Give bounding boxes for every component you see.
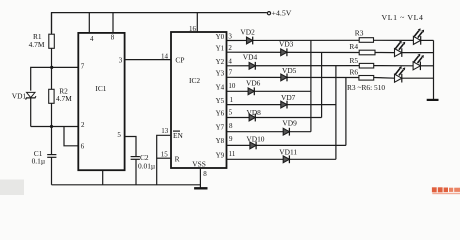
svg-text:Y5: Y5 bbox=[216, 97, 225, 105]
wire IC1 pin6 elbow bbox=[64, 127, 78, 146]
svg-text:8: 8 bbox=[229, 122, 233, 130]
svg-text:VD8: VD8 bbox=[247, 108, 262, 117]
svg-text:15: 15 bbox=[161, 150, 169, 158]
IC1 pin5 wire bbox=[125, 137, 136, 157]
svg-text:6: 6 bbox=[81, 143, 85, 151]
wire Y7 row to bus A bbox=[227, 131, 311, 133]
wire R6 to VL4 bbox=[374, 77, 395, 80]
wire Y2 row to R5 bbox=[227, 65, 360, 67]
svg-text:Y7: Y7 bbox=[216, 124, 225, 132]
svg-text:8: 8 bbox=[203, 170, 207, 178]
wire R5 to VL3 bbox=[374, 65, 413, 67]
node dot R2/C1/pin2 bbox=[50, 125, 53, 128]
diode VD5 bbox=[281, 74, 287, 82]
svg-text:R6: R6 bbox=[350, 67, 359, 76]
LED VL3 bbox=[413, 54, 424, 70]
diode VD7 bbox=[281, 101, 287, 109]
diode VD11 bbox=[283, 155, 289, 163]
wire Y0 row to R3 bbox=[227, 39, 360, 41]
diode VD9 bbox=[283, 128, 289, 136]
svg-text:4.7M: 4.7M bbox=[29, 40, 45, 49]
+4.5V supply terminal bbox=[267, 12, 270, 15]
svg-text:5: 5 bbox=[117, 131, 121, 139]
svg-text:VD6: VD6 bbox=[246, 78, 261, 87]
zener diode VD1 bbox=[12, 91, 36, 126]
IC1 pin8 wire bbox=[112, 13, 114, 33]
diode VD10 bbox=[250, 142, 256, 150]
svg-text:7: 7 bbox=[229, 69, 233, 77]
svg-text:4.7M: 4.7M bbox=[56, 94, 72, 103]
wire Y4 row to bus A bbox=[227, 90, 311, 92]
wire Y9 row to bus C bbox=[227, 158, 336, 160]
svg-text:Y2: Y2 bbox=[216, 58, 225, 66]
wire bus A (Y0/Y4/Y7 to R3) bbox=[310, 40, 312, 131]
svg-text:10: 10 bbox=[228, 82, 236, 90]
wire R3 to VL1 bbox=[374, 39, 414, 41]
svg-text:9: 9 bbox=[229, 135, 233, 143]
wire IC1 pin3 to IC2 CP bbox=[125, 59, 171, 61]
diode VD3 bbox=[281, 48, 287, 56]
wire bus B (Y1/Y6 to R4) bbox=[321, 52, 323, 117]
svg-text:VD4: VD4 bbox=[243, 53, 258, 62]
wire R4 to VL2 bbox=[375, 52, 395, 54]
IC2 pin16 wire bbox=[196, 13, 198, 32]
IC1 pin4 wire bbox=[88, 13, 90, 33]
IC1 box bbox=[78, 33, 124, 170]
node dot R1/R2/pin7 bbox=[50, 66, 53, 69]
svg-text:VD7: VD7 bbox=[281, 93, 296, 102]
wire bus D (Y3/Y8 to R6) bbox=[345, 77, 347, 145]
resistor R5 bbox=[359, 63, 373, 68]
svg-text:Y6: Y6 bbox=[216, 110, 225, 118]
svg-text:+4.5V: +4.5V bbox=[272, 9, 292, 18]
svg-text:Y4: Y4 bbox=[216, 83, 225, 91]
svg-text:16: 16 bbox=[189, 25, 197, 33]
watermark (bottom right) bbox=[432, 187, 460, 194]
wire VL4 to right bus bbox=[402, 77, 434, 79]
svg-text:VL1 ~ VL4: VL1 ~ VL4 bbox=[382, 13, 424, 22]
svg-text:0.01µ: 0.01µ bbox=[138, 161, 156, 170]
diode VD6 bbox=[248, 87, 254, 95]
svg-text:2: 2 bbox=[228, 44, 232, 52]
svg-text:3: 3 bbox=[119, 57, 123, 65]
wire Y6 row to bus B bbox=[227, 117, 322, 119]
diode VD2 bbox=[247, 37, 253, 45]
svg-text:R: R bbox=[175, 155, 180, 164]
wire IC1 pin2 node bbox=[31, 126, 79, 128]
wire VL1 to right bus bbox=[421, 39, 434, 41]
svg-text:Y3: Y3 bbox=[216, 70, 225, 78]
svg-text:VD2: VD2 bbox=[240, 28, 255, 37]
svg-text:4: 4 bbox=[90, 35, 94, 43]
svg-text:1: 1 bbox=[230, 96, 234, 104]
svg-text:5: 5 bbox=[229, 109, 233, 117]
svg-text:VD11: VD11 bbox=[279, 147, 297, 156]
svg-text:11: 11 bbox=[229, 150, 236, 158]
svg-text:EN: EN bbox=[173, 131, 184, 140]
svg-text:R3 ~R6: 510: R3 ~R6: 510 bbox=[347, 83, 385, 92]
svg-text:VD9: VD9 bbox=[282, 119, 297, 128]
svg-text:13: 13 bbox=[161, 127, 169, 135]
wire Y3 row to R6 bbox=[227, 76, 359, 78]
wire VL2 to right bus bbox=[402, 52, 434, 54]
svg-text:VSS: VSS bbox=[192, 159, 206, 168]
wire IC1 pin7 node bbox=[31, 67, 79, 90]
svg-text:IC2: IC2 bbox=[189, 76, 200, 85]
svg-text:VD3: VD3 bbox=[279, 39, 294, 48]
svg-text:VD1: VD1 bbox=[12, 91, 27, 100]
svg-text:R3: R3 bbox=[355, 29, 364, 38]
capacitor C2 bbox=[131, 153, 156, 185]
svg-text:14: 14 bbox=[161, 52, 169, 60]
svg-text:CP: CP bbox=[175, 55, 184, 64]
resistor R3 bbox=[359, 38, 373, 43]
IC2 pin8 wire to ground bbox=[199, 168, 201, 188]
svg-text:3: 3 bbox=[228, 32, 232, 40]
wire Y1 row to R4 bbox=[227, 51, 360, 53]
LED VL4 bbox=[395, 66, 406, 82]
capacitor C1 bbox=[32, 127, 57, 185]
resistor R6 bbox=[359, 76, 374, 81]
IC2 R pin15 wire bbox=[157, 157, 171, 159]
svg-text:VD5: VD5 bbox=[282, 66, 297, 75]
diode VD8 bbox=[249, 114, 255, 122]
svg-text:Y9: Y9 bbox=[216, 151, 225, 159]
svg-text:8: 8 bbox=[111, 33, 115, 41]
wire top supply rail bbox=[52, 13, 267, 33]
LED VL2 bbox=[395, 41, 406, 57]
resistor R4 bbox=[359, 50, 375, 55]
ground (main) bbox=[194, 187, 207, 189]
resistor R2 bbox=[49, 67, 73, 126]
svg-text:4: 4 bbox=[228, 57, 232, 65]
wire bus C (Y2/Y5/Y9 to R5) bbox=[335, 66, 337, 160]
LED VL1 bbox=[413, 28, 424, 44]
svg-text:IC1: IC1 bbox=[95, 84, 106, 93]
wire Y8 row to bus D bbox=[227, 144, 346, 146]
scan artifact (bottom-left grey block) bbox=[0, 180, 24, 196]
svg-text:Y0: Y0 bbox=[216, 33, 225, 41]
resistor R1 bbox=[29, 13, 55, 68]
wire VL3 to right bus bbox=[420, 65, 433, 67]
IC2 box bbox=[171, 32, 227, 168]
svg-text:R4: R4 bbox=[349, 42, 358, 51]
wire Y5 row to bus C bbox=[227, 104, 336, 106]
svg-text:R5: R5 bbox=[350, 56, 359, 65]
wire bottom rail bbox=[52, 184, 201, 186]
svg-text:Y1: Y1 bbox=[216, 45, 225, 53]
ground (right) bbox=[427, 99, 439, 101]
diode VD4 bbox=[249, 62, 255, 70]
svg-text:2: 2 bbox=[81, 121, 85, 129]
svg-text:0.1µ: 0.1µ bbox=[32, 157, 46, 166]
svg-text:Y8: Y8 bbox=[216, 137, 225, 145]
IC1 pin1 wire to rail bbox=[102, 170, 104, 185]
wire right bus to ground bbox=[433, 40, 435, 99]
svg-text:7: 7 bbox=[81, 63, 85, 71]
IC2 EN pin13 wire bbox=[157, 135, 171, 185]
svg-text:VD10: VD10 bbox=[246, 134, 264, 143]
